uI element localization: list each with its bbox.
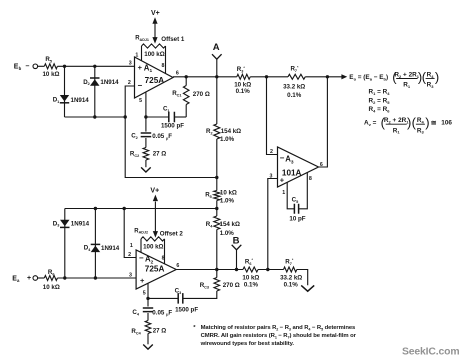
diode D4 1N914 (94, 209, 96, 279)
arrow: output Eo (341, 74, 347, 79)
svg-text:wirewound types for best stabi: wirewound types for best stability. (200, 341, 295, 347)
svg-text:154 kΩ: 154 kΩ (220, 221, 240, 228)
svg-text:725A: 725A (145, 265, 165, 274)
wire: A3 pin8 (299, 172, 308, 208)
svg-text:1: 1 (135, 52, 138, 58)
svg-text:V+: V+ (150, 188, 159, 195)
resistor R5 10k (upper input) (44, 64, 57, 69)
svg-text:Offset 2: Offset 2 (160, 230, 184, 237)
svg-text:3: 3 (270, 173, 273, 179)
resistor Rc3 270 ohm (A2 comp) (216, 270, 218, 278)
svg-text:106: 106 (441, 120, 452, 127)
wire (216, 139, 218, 191)
resistor Rc1 270 ohm (A1 comp) (185, 77, 187, 86)
svg-text:3: 3 (129, 272, 132, 278)
capacitor C4 0.05 uF (143, 308, 153, 312)
capacitor C5 10 pF (294, 204, 298, 214)
node (93, 115, 96, 118)
svg-text:+: + (280, 176, 285, 185)
svg-text:27 Ω: 27 Ω (153, 151, 167, 158)
svg-text:−: − (139, 253, 144, 262)
svg-text:1N914: 1N914 (71, 221, 90, 228)
capacitor C3 1500 pF (178, 293, 183, 304)
svg-text:1.0%: 1.0% (220, 136, 235, 143)
wire: A3 output to feedback node (319, 77, 328, 167)
svg-text:SeekIC.com: SeekIC.com (402, 346, 459, 357)
svg-text:): ) (425, 115, 429, 130)
node: ladder bottom junction (215, 268, 218, 271)
svg-text:+: + (27, 275, 31, 282)
svg-text:R4 = R6: R4 = R6 (369, 106, 391, 113)
node (144, 115, 147, 118)
svg-text:1N914: 1N914 (71, 97, 90, 104)
svg-text:10 kΩ: 10 kΩ (220, 190, 237, 197)
node: ladder top / node A junction (215, 75, 218, 78)
svg-text:1N914: 1N914 (101, 245, 120, 252)
svg-text:100 kΩ: 100 kΩ (143, 243, 163, 250)
svg-text:100 kΩ: 100 kΩ (144, 51, 164, 58)
svg-text:33.2 kΩ: 33.2 kΩ (280, 274, 302, 281)
svg-text:154 kΩ: 154 kΩ (221, 128, 241, 135)
wire: A2 output row (176, 269, 243, 271)
svg-text:B: B (233, 236, 240, 247)
svg-text:Offset 1: Offset 1 (161, 36, 185, 43)
op-amp A3 101A (278, 147, 319, 187)
resistor Rc4 27 ohm (145, 321, 151, 334)
ground (A2 pin5 network) (143, 345, 153, 350)
svg-text:8: 8 (162, 63, 165, 69)
resistor R4 154k 1.0% (214, 216, 220, 230)
svg-text:270 Ω: 270 Ω (193, 91, 210, 98)
svg-text:1500 pF: 1500 pF (161, 123, 184, 130)
potentiometer Radj2 100k offset (141, 237, 165, 241)
V+ supply (A2 offset) (153, 195, 158, 202)
svg-text:1: 1 (282, 190, 285, 196)
resistor R2 154k 1.0% (214, 124, 220, 139)
op-amp A1 725A (135, 57, 174, 98)
node (215, 207, 218, 210)
svg-text:0.1%: 0.1% (244, 282, 259, 289)
svg-text:2: 2 (128, 252, 131, 258)
svg-text:6: 6 (176, 71, 179, 77)
svg-text:3: 3 (129, 61, 132, 67)
ground (A1 pin5 network) (141, 167, 151, 172)
wire: gain ladder (216, 77, 218, 124)
svg-text:Matching of resistor pairs R2: Matching of resistor pairs R2 − R3 and R… (201, 325, 356, 331)
node: R3*/R7* junction to A3 pin2 (265, 75, 268, 78)
svg-text:–: – (26, 63, 30, 70)
wire: diode rail (upper) (65, 116, 126, 118)
svg-text:101A: 101A (282, 168, 302, 177)
svg-text:10 kΩ: 10 kΩ (42, 71, 59, 78)
svg-text:Eo = (Ea − Eb): Eo = (Ea − Eb) (349, 74, 388, 81)
resistor Rc2 27 ohm (143, 148, 149, 161)
potentiometer Radj1 100k offset (142, 44, 166, 48)
svg-text:10 kΩ: 10 kΩ (242, 274, 259, 281)
op-amp A2 725A (136, 250, 176, 289)
svg-text:10 kΩ: 10 kΩ (43, 284, 60, 291)
node (235, 268, 238, 271)
node (63, 276, 66, 279)
svg-text:33.2 kΩ: 33.2 kΩ (283, 83, 305, 90)
wire: A2 pin2 feedback (124, 209, 136, 258)
resistor R3* 10k 0.1% (237, 74, 250, 79)
svg-text:A: A (213, 42, 220, 53)
node (124, 115, 127, 118)
svg-text:5: 5 (143, 290, 146, 296)
svg-text:1500 pF: 1500 pF (175, 306, 198, 313)
wire: diode rail (lower) to ladder (65, 208, 217, 210)
node (94, 276, 97, 279)
svg-text:6: 6 (176, 263, 179, 269)
node: A3 output feedback junction (326, 75, 329, 78)
svg-text:Av =: Av = (364, 120, 377, 127)
capacitor C1 1500 pF (146, 116, 169, 118)
svg-text:V+: V+ (151, 10, 160, 17)
wire (57, 277, 136, 279)
wire (38, 65, 45, 67)
svg-text:5: 5 (139, 98, 142, 104)
wire (258, 269, 284, 271)
resistor R6 10k (lower input) (44, 276, 57, 281)
svg-text:1N914: 1N914 (100, 79, 119, 86)
svg-text:CMRR. All gain resistors (R1 −: CMRR. All gain resistors (R1 − R7) shoul… (201, 333, 357, 339)
svg-text:2: 2 (128, 80, 131, 86)
node: D1 top junction (63, 65, 66, 68)
wire: A3 pin1 (287, 182, 294, 209)
wire: A2 pin5 chain (147, 283, 149, 306)
wire: A1 pin2 feedback to ladder (125, 86, 217, 178)
capacitor C2 0.05 uF (141, 133, 152, 137)
svg-text:10 pF: 10 pF (289, 215, 305, 222)
svg-text:): ) (435, 69, 439, 84)
svg-text:27 Ω: 27 Ω (153, 327, 167, 334)
node: junction to A3 pin3 (266, 268, 269, 271)
svg-text:725A: 725A (145, 76, 165, 85)
wire to Eo (305, 76, 341, 78)
svg-text:0.05 μF: 0.05 μF (152, 133, 172, 140)
resistor R7* 33.2k 0.1% (lower) (284, 267, 297, 272)
wire: pot wiper to V+ (154, 24, 156, 41)
V+ supply (A1 offset) (152, 17, 157, 24)
svg-text:R2 + 2R1: R2 + 2R1 (384, 117, 409, 124)
wire: A3 pin2 from R3*/R7* node (267, 77, 278, 155)
node (146, 297, 149, 300)
wire (57, 65, 134, 67)
ground (reference) (301, 285, 314, 291)
node (94, 207, 97, 210)
diode D2 1N914 (94, 66, 96, 117)
wire (38, 277, 45, 279)
svg-text:b: b (19, 66, 22, 71)
wire: A3 pin3 from R6*/R7* node (268, 179, 278, 270)
svg-text:0.1%: 0.1% (284, 282, 299, 289)
resistor R7* 33.2k 0.1% (feedback) (288, 74, 305, 79)
svg-text:2: 2 (270, 149, 273, 155)
svg-text:≅: ≅ (431, 120, 437, 127)
svg-text:R1 = R4: R1 = R4 (369, 88, 391, 95)
svg-text:R2 = R5: R2 = R5 (369, 97, 391, 104)
node (215, 176, 218, 179)
svg-text:−: − (137, 81, 142, 90)
node: A1 output junction (185, 75, 188, 78)
svg-text:0.05 μF: 0.05 μF (152, 309, 172, 316)
diode D3 1N914 (64, 209, 66, 279)
wire: ladder bottom to A2 output (216, 230, 218, 270)
node (123, 207, 126, 210)
svg-text:0.1%: 0.1% (287, 92, 302, 99)
svg-text:+: + (140, 276, 145, 285)
node: D2 top junction (93, 65, 96, 68)
wire (250, 76, 288, 78)
diode D1 1N914 (64, 66, 66, 117)
svg-text:1: 1 (130, 243, 133, 249)
svg-text:−: − (280, 154, 285, 163)
svg-text:270 Ω: 270 Ω (223, 282, 240, 289)
svg-text:8: 8 (309, 176, 312, 182)
resistor R6* 10k 0.1% (243, 267, 258, 272)
svg-text:+: + (138, 63, 143, 72)
wire (216, 201, 218, 217)
svg-text:R2 + 2R1: R2 + 2R1 (394, 72, 419, 79)
resistor R5 10k 1.0% (ladder) (214, 191, 220, 201)
svg-text:1.0%: 1.0% (220, 197, 235, 204)
wire to ground (297, 270, 308, 286)
wire: A1 pin5 compensation chain (145, 92, 147, 131)
svg-text:0.1%: 0.1% (236, 88, 251, 95)
wire: A1 output row (173, 76, 237, 78)
svg-text:(: ( (412, 115, 417, 130)
wire: pot wiper to V+ (154, 202, 156, 233)
